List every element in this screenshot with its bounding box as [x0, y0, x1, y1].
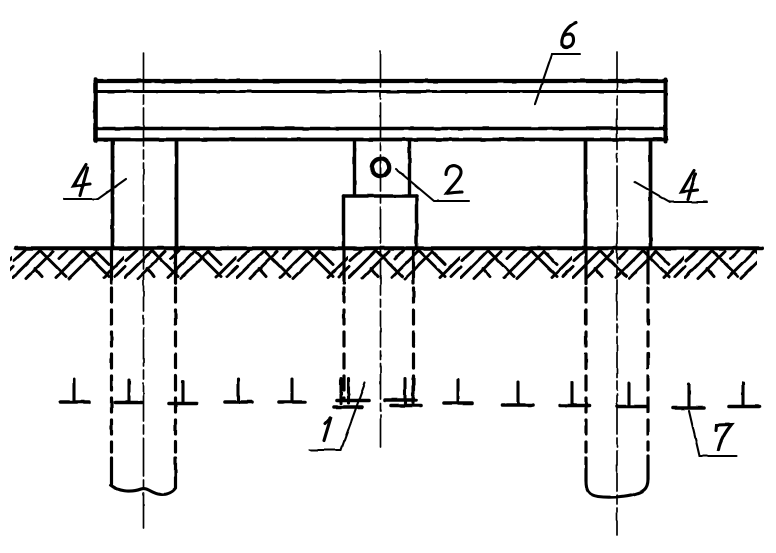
leader for label 6 — [535, 54, 580, 104]
left pile bottom break line — [111, 485, 176, 494]
right pile bottom break line — [586, 479, 648, 497]
pedestal under jack — [344, 196, 418, 249]
middle jack column (2) — [355, 141, 410, 195]
pile tip marks row (7) — [60, 379, 759, 409]
leader for left label 4 — [64, 179, 126, 199]
jack roller circle — [372, 159, 389, 176]
label 4 right — [682, 171, 698, 200]
ground hatching band — [10, 250, 757, 283]
leader for label 7 — [689, 411, 736, 456]
label 4 left — [74, 165, 90, 196]
right pier (4) — [586, 141, 651, 249]
label 6 — [562, 23, 576, 48]
beam (superstructure 6) — [95, 80, 666, 142]
centerline left pier axis — [143, 53, 145, 528]
leader for label 1 — [310, 383, 365, 450]
centerline middle support axis — [380, 51, 382, 447]
leader for right label 4 — [635, 182, 707, 202]
middle pile dashed outline (1) — [344, 288, 414, 400]
left pile dashed outline (1) — [112, 288, 176, 487]
label 7 — [717, 425, 732, 450]
ground line — [16, 246, 762, 250]
pile edge stubs through hatch — [112, 249, 649, 283]
label 2 — [446, 166, 462, 194]
right pile dashed outline — [586, 288, 648, 481]
label 1 — [324, 417, 331, 441]
leader for label 2 — [396, 169, 469, 201]
centerline right pier axis — [616, 52, 618, 535]
left pier (4) — [113, 141, 177, 249]
